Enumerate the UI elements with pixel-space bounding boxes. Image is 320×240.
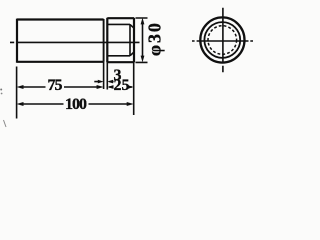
extension line at groove right [106, 62, 108, 89]
arrowheads [17, 18, 145, 106]
phi30 extension lines [136, 18, 148, 62]
svg-text:φ30: φ30 [145, 23, 165, 56]
end view vertical centerline [222, 8, 224, 72]
svg-text:3: 3 [114, 67, 122, 84]
arrow phi30 top [141, 18, 145, 25]
arrow 75 right [97, 85, 104, 89]
centerline (side view axis) [10, 41, 140, 43]
step line (groove left edge) [103, 19, 105, 62]
end view outer circle [200, 17, 244, 62]
arrow 3 left (outside pointing right) [98, 80, 104, 84]
dimension line 3 (arrows outside) [94, 81, 113, 83]
phi30 dimension line [142, 21, 144, 59]
scan specks left edge [0, 89, 2, 91]
arrow 100 right [127, 102, 134, 106]
arrow 3 right (outside pointing left) [107, 80, 113, 84]
faint scan streak [4, 120, 7, 127]
shaft outline (side view body) [17, 19, 104, 63]
thread minor diameter lines [107, 24, 134, 55]
svg-text:75: 75 [48, 77, 63, 94]
extension line left (x=16.5) [16, 67, 18, 119]
arrow 25 left [107, 85, 113, 89]
arrow phi30 bottom [141, 56, 145, 63]
chamfer diagonals [130, 24, 134, 55]
arrow 25 right [128, 85, 134, 89]
svg-text:100: 100 [65, 96, 87, 113]
extension line at 75 / groove left [103, 62, 105, 89]
arrow 75 left [17, 85, 24, 89]
dimension line 75 [22, 86, 98, 88]
extension line right (x=133.5) [133, 62, 135, 115]
dimension line 100 [22, 103, 129, 105]
dimension line 25 [109, 86, 132, 88]
end view hidden (dashed) circle [208, 26, 237, 55]
threaded end outline (side view head) [107, 18, 134, 63]
arrow 100 left [17, 102, 24, 106]
end view horizontal centerline [192, 40, 253, 42]
end view chamfer circle [204, 22, 240, 58]
